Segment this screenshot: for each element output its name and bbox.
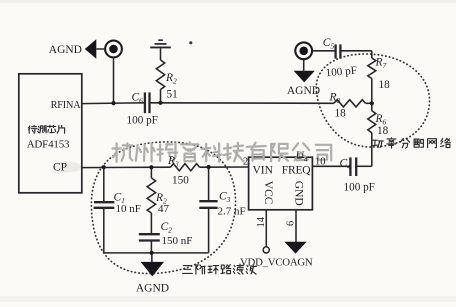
svg-text:FREQ: FREQ [282,164,311,176]
svg-text:47: 47 [158,203,170,215]
svg-text:AGND: AGND [136,283,169,295]
svg-text:RFINA: RFINA [51,100,82,111]
svg-text:150: 150 [172,175,189,187]
svg-text:6: 6 [286,221,297,226]
svg-text:2.7 nF: 2.7 nF [218,206,246,218]
svg-text:2: 2 [243,157,248,168]
svg-text:14: 14 [256,216,267,227]
svg-text:51: 51 [167,89,178,101]
svg-text:100 pF: 100 pF [127,115,158,127]
svg-text:VIN: VIN [253,164,274,176]
svg-text:10 nF: 10 nF [116,203,141,215]
svg-text:100 pF: 100 pF [344,182,375,194]
svg-text:18: 18 [335,108,347,120]
svg-text:AGND: AGND [49,44,82,56]
svg-text:150 nF: 150 nF [162,235,193,247]
svg-text:AGND: AGND [287,85,320,97]
svg-text:18: 18 [379,79,391,91]
svg-text:CP: CP [53,162,67,174]
svg-text:VCC: VCC [262,181,274,205]
svg-text:GND: GND [293,181,305,206]
svg-text:ADF4153: ADF4153 [27,139,70,151]
svg-text:10: 10 [315,157,326,168]
svg-text:18: 18 [377,125,389,137]
